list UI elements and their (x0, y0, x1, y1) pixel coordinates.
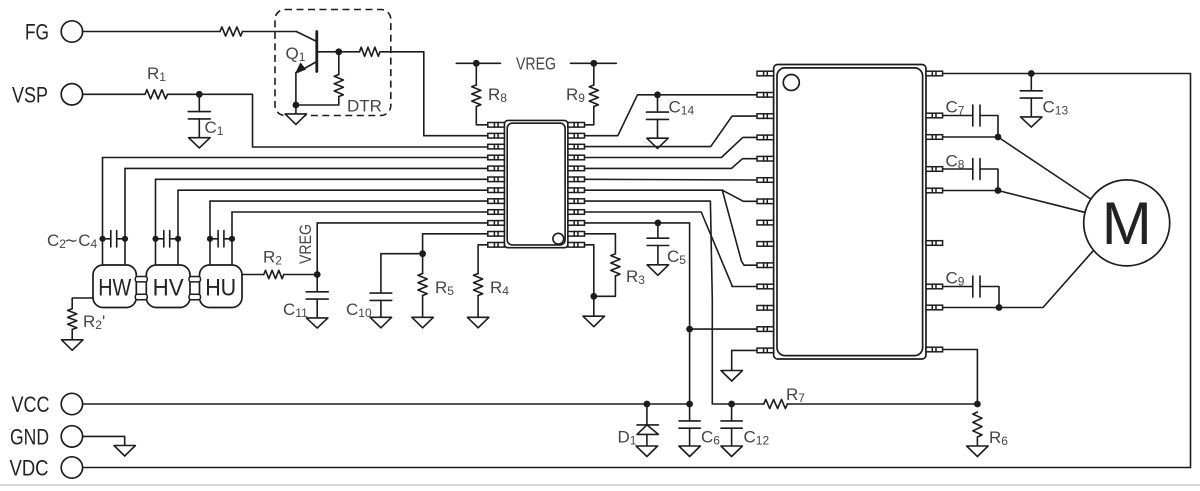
node (base) (335, 48, 342, 55)
svg-text:HV: HV (153, 274, 184, 301)
pin stub U1 left 3 (488, 144, 505, 149)
wire (168, 93, 200, 95)
net hall bus wires (103, 158, 488, 213)
svg-text:M: M (1102, 190, 1152, 257)
node (emitter) (293, 102, 300, 109)
pin stub U2 left 9 (757, 242, 774, 247)
node D1 (644, 401, 651, 408)
pin stub U2 left 8 (757, 220, 774, 225)
terminal VSP (12, 83, 83, 108)
node R9/VREG (590, 60, 597, 67)
hall sensor HW (93, 265, 136, 308)
capacitor C12 (721, 404, 770, 457)
pin stub U2 right 8 (926, 305, 943, 310)
resistor R3 (585, 234, 646, 296)
wire (U2 pin 14 ground) (721, 350, 757, 381)
pin stub U2 right 6 (926, 241, 943, 246)
net VREG (vertical label) (296, 223, 488, 275)
ground (583, 296, 605, 326)
resistor R2 (242, 248, 317, 279)
terminal VCC (12, 392, 83, 417)
pin stub U1 right 12 (568, 243, 585, 248)
capacitor C14 (647, 95, 695, 149)
pin stub U1 right 5 (568, 166, 585, 171)
resistor R2' (62, 298, 106, 350)
pin stub U1 right 3 (568, 144, 585, 149)
pin stub U2 left 7 (757, 199, 774, 204)
node (R3 ground) (590, 293, 597, 300)
pin stub U1 right 9 (568, 210, 585, 215)
wire (base to driver IC) (380, 52, 488, 136)
pin stub U2 left 2 (757, 93, 774, 98)
node (phase U) (996, 304, 1003, 311)
wire (243, 31, 297, 33)
pin stub U1 left 9 (488, 210, 505, 215)
svg-text:VREG: VREG (516, 54, 556, 74)
pin stub U2 left 12 (757, 306, 774, 311)
pin stub U1 right 6 (568, 177, 585, 182)
wire (476, 107, 488, 125)
pin stub U2 left 13 (757, 327, 774, 332)
resistor (base-emitter) (296, 52, 344, 105)
pin stub U1 left 4 (488, 155, 505, 160)
pin stub U1 left 7 (488, 188, 505, 193)
node R8/VREG (473, 60, 480, 67)
resistor R9 (566, 63, 598, 106)
capacitor C7 (943, 97, 998, 137)
resistor (FG series) (220, 27, 243, 36)
ground (Q1 emitter) (285, 105, 307, 124)
pin stub U2 right 9 (926, 347, 943, 352)
svg-text:GND: GND (10, 425, 49, 450)
capacitor C5 (647, 223, 686, 275)
node C12 (728, 401, 735, 408)
wire (VCC riser) (585, 222, 658, 224)
pin stub U2 left 11 (757, 284, 774, 289)
wire (to motor W) (998, 137, 1092, 200)
pin stub U1 right 4 (568, 155, 585, 160)
wire (83, 93, 145, 95)
resistor R4 (467, 245, 509, 328)
capacitor C13 (1020, 74, 1068, 128)
node C5 (655, 220, 662, 227)
pin stub U2 left 5 (757, 156, 774, 161)
capacitor C10 (346, 254, 423, 328)
wire (signal 7) (585, 190, 758, 201)
node (sense) (974, 401, 981, 408)
node (VSP filter) (196, 91, 203, 98)
wire (hall verticals) (103, 158, 233, 266)
wire (585, 107, 594, 125)
node C13 (1028, 70, 1035, 77)
pin stub U1 left 11 (488, 232, 505, 237)
wire (VDC rail) (83, 467, 1191, 469)
resistor R5 (412, 254, 454, 328)
pin stub U2 left 10 (757, 263, 774, 268)
wire (phase W) (943, 136, 998, 138)
node (phase W) (995, 134, 1002, 141)
capacitors C2~C4 (47, 231, 235, 252)
pin stub U1 right 11 (568, 232, 585, 237)
pin stub U2 right 3 (926, 135, 943, 140)
pin stub U2 right 2 (926, 113, 943, 118)
DTR digital transistor box (275, 10, 391, 116)
svg-text:HW: HW (98, 274, 131, 301)
pin stub U1 right 1 (568, 123, 585, 128)
terminal VDC (10, 456, 83, 481)
svg-text:VREG: VREG (296, 224, 315, 264)
wire (690, 328, 757, 330)
diode D1 (618, 404, 659, 457)
pin stub U1 left 2 (488, 133, 505, 138)
wire (signal 5) (585, 159, 758, 169)
svg-text:HU: HU (205, 274, 236, 301)
motor M (1084, 180, 1170, 266)
hall sensor HU (200, 265, 243, 308)
pin stub U2 left 3 (757, 114, 774, 119)
wire (to motor V) (998, 191, 1085, 213)
wire (signal 6) (585, 178, 758, 181)
pin stub U2 left 14 (757, 348, 774, 353)
pin stub U2 right 4 (926, 167, 943, 172)
resistor (base series) (360, 47, 381, 56)
page divider (0, 484, 1200, 486)
node C14 (654, 91, 661, 98)
pin stub U1 left 5 (488, 166, 505, 171)
pin stub U2 right 1 (926, 71, 943, 76)
wire (current sense) (943, 350, 978, 405)
wire (signal 3) (585, 116, 758, 147)
wire (branch signal 7 to pin 10) (722, 190, 757, 265)
IC U2 (motor driver) (774, 65, 926, 360)
pin stub U1 left 6 (488, 177, 505, 182)
wire (585, 245, 594, 296)
hall sensor HV (146, 265, 190, 308)
pin stub U1 left 8 (488, 199, 505, 204)
terminal FG (25, 20, 83, 45)
pin stub U1 left 10 (488, 221, 505, 226)
net VREG rail (456, 54, 616, 74)
wire (phase U) (943, 307, 999, 309)
svg-text:FG: FG (25, 20, 49, 45)
wire (U1 to U2 signal 2) (585, 95, 758, 136)
pin stub U2 left 1 (757, 71, 774, 76)
resistor R6 (967, 412, 1009, 457)
wire (signal 9 to pin 11) (585, 212, 758, 287)
capacitor C9 (943, 269, 999, 308)
wire (83, 31, 220, 33)
wire (base lead) (317, 51, 339, 53)
svg-text:DTR: DTR (347, 97, 382, 116)
svg-text:VCC: VCC (12, 392, 50, 417)
pin stub U1 left 12 (488, 243, 505, 248)
pin stub U2 right 5 (926, 188, 943, 193)
wire (VM top rail) (943, 74, 1191, 468)
wire (emitter) (295, 73, 297, 106)
pin stub U2 right 7 (926, 284, 943, 289)
wire (199, 94, 488, 147)
pin stub U2 left 4 (757, 135, 774, 140)
wire (signal 4) (585, 137, 758, 157)
terminal GND (10, 425, 83, 450)
transistor Q1 (286, 32, 317, 74)
capacitor C8 (943, 152, 998, 191)
node C6 (686, 401, 693, 408)
resistor R1 (145, 64, 168, 99)
resistor R8 (472, 63, 508, 106)
wire (339, 51, 360, 53)
pin stub U1 right 7 (568, 188, 585, 193)
node R5/C10 (419, 250, 426, 257)
capacitor C11 (283, 275, 328, 329)
pin stub U1 right 10 (568, 221, 585, 226)
node (phase V) (995, 187, 1002, 194)
pin stub U1 right 2 (568, 133, 585, 138)
IC U1 (pre-driver, 24-pin) (504, 120, 568, 247)
wire (423, 234, 488, 254)
hall chain links (135, 277, 200, 300)
wire (to motor U) (999, 251, 1093, 307)
svg-text:R2': R2' (83, 312, 105, 332)
wire (signal 8 to R7 sense) (585, 201, 732, 404)
ground (GND terminal) (83, 436, 136, 456)
capacitor C6 (679, 404, 720, 457)
pin stub U2 left 6 (757, 178, 774, 183)
resistor R7 (732, 385, 978, 409)
wire (VCC rail) (83, 403, 690, 405)
svg-text:VDC: VDC (10, 456, 49, 481)
pin stub U1 right 8 (568, 199, 585, 204)
node (U2 VCC pin) (686, 326, 693, 333)
svg-text:VSP: VSP (12, 83, 48, 108)
pin stub U1 left 1 (488, 123, 505, 128)
capacitor C1 (188, 94, 223, 148)
wire (phase V) (943, 190, 998, 192)
node VREG/C11 (314, 271, 321, 278)
